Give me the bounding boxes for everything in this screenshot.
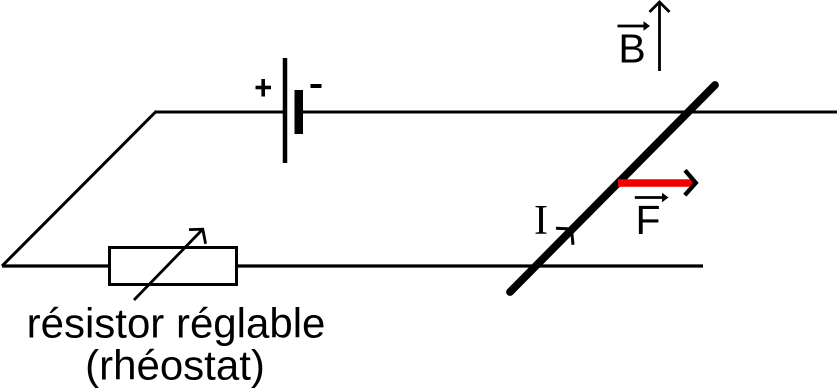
B field arrow (vertical up) bbox=[650, 2, 670, 71]
wire top horizontal left segment bbox=[156, 111, 285, 114]
svg-text:B: B bbox=[618, 26, 645, 72]
force F arrowhead (black chevron) bbox=[685, 170, 696, 195]
battery + label bbox=[256, 79, 272, 97]
battery - label bbox=[311, 84, 322, 88]
svg-text:I: I bbox=[534, 198, 548, 244]
current direction arrowhead on rod bbox=[556, 228, 573, 245]
svg-text:résistor réglable: résistor réglable bbox=[27, 300, 326, 347]
wire top horizontal right segment bbox=[300, 111, 837, 114]
battery positive plate bbox=[283, 58, 288, 163]
resistor R (rheostat) box bbox=[110, 248, 237, 285]
vector arrow over F bbox=[635, 193, 669, 202]
force F red arrow bbox=[618, 179, 694, 187]
svg-text:(rhéostat): (rhéostat) bbox=[85, 342, 265, 388]
rheostat adjustment arrow bbox=[134, 229, 206, 300]
conducting rod bbox=[510, 85, 715, 292]
wire left diagonal bbox=[2, 111, 157, 266]
svg-text:F: F bbox=[635, 197, 660, 243]
battery negative plate bbox=[295, 90, 304, 134]
vector arrow over B bbox=[618, 21, 651, 30]
wire bottom horizontal bbox=[2, 264, 703, 267]
